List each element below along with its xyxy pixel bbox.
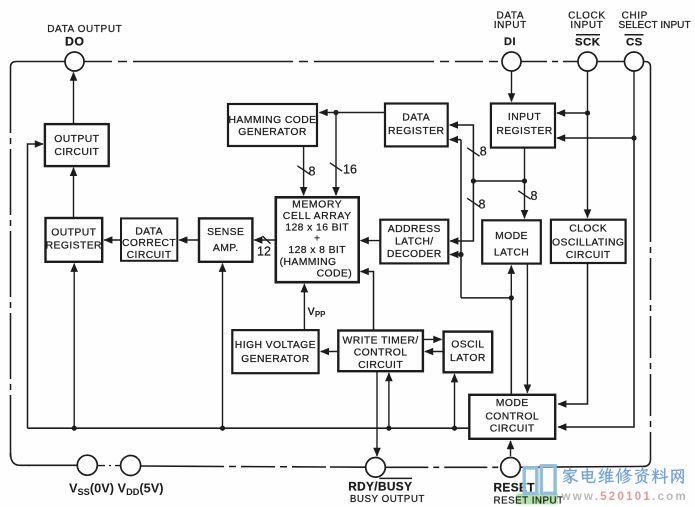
svg-text:CORRECT: CORRECT [122,238,176,249]
svg-text:DATA: DATA [402,113,430,124]
svg-text:RDY/BUSY: RDY/BUSY [348,480,412,494]
svg-text:CIRCUIT: CIRCUIT [54,147,99,158]
svg-text:128 x 8 BIT: 128 x 8 BIT [288,245,346,256]
svg-text:HIGH VOLTAGE: HIGH VOLTAGE [235,340,316,351]
svg-text:www.520101.com: www.520101.com [561,490,688,503]
svg-text:RESET INPUT: RESET INPUT [494,495,564,506]
svg-text:REGISTER: REGISTER [388,126,444,137]
svg-text:DATA OUTPUT: DATA OUTPUT [47,24,122,35]
svg-text:8: 8 [309,165,316,179]
svg-text:DATA: DATA [135,226,163,237]
svg-text:CIRCUIT: CIRCUIT [566,250,611,261]
svg-text:REGISTER: REGISTER [496,126,552,137]
svg-text:CIRCUIT: CIRCUIT [127,250,172,261]
svg-text:SELECT INPUT: SELECT INPUT [619,20,691,31]
svg-text:REGISTER: REGISTER [46,240,102,251]
svg-text:GENERATOR: GENERATOR [241,354,310,365]
svg-text:DI: DI [504,36,516,48]
svg-text:LATCH: LATCH [494,248,529,259]
svg-text:MEMORY: MEMORY [292,199,342,210]
svg-text:CIRCUIT: CIRCUIT [490,423,535,434]
svg-text:LATCH/: LATCH/ [395,236,434,247]
svg-text:GENERATOR: GENERATOR [238,127,307,138]
svg-text:CODE): CODE) [317,268,352,279]
svg-text:DECODER: DECODER [387,249,442,260]
svg-text:8: 8 [531,189,538,203]
svg-text:SENSE: SENSE [207,227,244,238]
svg-text:ADDRESS: ADDRESS [388,224,441,235]
svg-text:MODE: MODE [495,231,528,242]
svg-text:+: + [314,234,320,245]
svg-text:WRITE TIMER/: WRITE TIMER/ [343,336,419,347]
svg-text:CELL ARRAY: CELL ARRAY [283,211,352,222]
svg-text:12: 12 [257,245,271,259]
svg-text:CS: CS [626,36,643,48]
svg-text:MODE: MODE [496,398,529,409]
svg-text:CLOCK: CLOCK [569,224,607,235]
svg-text:OSCILLATING: OSCILLATING [552,237,624,248]
svg-text:INPUT: INPUT [570,20,603,31]
svg-text:BUSY OUTPUT: BUSY OUTPUT [350,494,425,505]
svg-text:HAMMING CODE: HAMMING CODE [229,115,317,126]
svg-text:INPUT: INPUT [494,20,527,31]
svg-text:CONTROL: CONTROL [354,348,408,359]
svg-text:DO: DO [65,34,84,48]
svg-text:INPUT: INPUT [508,112,541,123]
svg-text:16: 16 [343,163,357,177]
svg-text:SCK: SCK [575,36,601,48]
svg-text:8: 8 [479,198,486,212]
svg-text:CIRCUIT: CIRCUIT [358,360,403,371]
svg-text:CONTROL: CONTROL [485,412,539,423]
svg-text:OSCIL: OSCIL [451,340,484,351]
svg-text:OUTPUT: OUTPUT [54,134,99,145]
svg-text:128 x 16 BIT: 128 x 16 BIT [285,222,349,233]
svg-text:LATOR: LATOR [450,353,486,364]
svg-text:AMP.: AMP. [213,243,239,254]
svg-text:OUTPUT: OUTPUT [51,228,96,239]
svg-text:8: 8 [480,144,487,158]
svg-text:(HAMMING: (HAMMING [280,257,337,268]
